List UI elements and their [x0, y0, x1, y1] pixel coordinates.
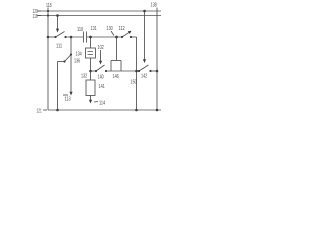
svg-text:130: 130: [107, 26, 113, 32]
relay 146 right leg: [120, 61, 122, 72]
wire middle column between boxes: [90, 58, 92, 80]
wire node A vertical lower to arrow 113: [70, 55, 72, 92]
svg-text:112: 112: [119, 26, 125, 32]
arrowhead switch 112 blade tip: [128, 31, 132, 34]
junction dot ground rail c: [156, 109, 159, 112]
wire 138 vertical right: [156, 8, 158, 111]
svg-text:134: 134: [76, 52, 82, 58]
wire control tap from bus 116: [57, 16, 59, 30]
relay 146 left leg: [110, 61, 112, 72]
wire middle column upper: [90, 37, 92, 48]
svg-text:110: 110: [77, 27, 83, 33]
svg-text:131: 131: [91, 26, 97, 32]
relay 146 stem: [116, 37, 118, 61]
svg-text:113: 113: [65, 97, 71, 103]
svg-text:114: 114: [99, 101, 105, 107]
arrowhead node 113 down: [69, 92, 72, 96]
contact dot switch 111 right: [64, 36, 66, 38]
junction dot 71-row left: [89, 70, 92, 73]
svg-text:141: 141: [99, 84, 105, 90]
capacitor 110 left plate: [83, 32, 85, 43]
svg-text:150: 150: [131, 80, 137, 86]
contact dot switch 140 right: [105, 70, 107, 72]
svg-text:118: 118: [46, 3, 52, 9]
arrowhead leader 102 onto switch 140: [99, 61, 102, 65]
wire main horizontal segment right: [87, 36, 122, 38]
svg-text:132: 132: [81, 74, 87, 80]
capacitor 110 right plate: [86, 32, 88, 43]
wire main horizontal segment left: [48, 36, 56, 38]
contact dot switch 142 right: [149, 70, 151, 72]
junction dot main wire left: [47, 36, 50, 39]
contact dot switch 112 right: [130, 36, 132, 38]
arrowhead control tap onto switch 111: [56, 29, 59, 33]
wire node A vertical upper: [70, 37, 72, 54]
contact dot switch 111 left: [54, 36, 56, 38]
leader dash of label 113: [63, 94, 68, 96]
leader arrow from label 102 to switch 140: [100, 50, 102, 62]
leader dash of label 121: [43, 109, 47, 111]
wire control line from bus 120 to switch 142: [144, 11, 146, 60]
junction dot bus116/tap: [56, 14, 59, 17]
contact dot switch 136 tip node: [70, 53, 72, 55]
svg-text:116: 116: [33, 14, 38, 20]
leader tick of label 130: [111, 31, 114, 36]
switch 112 blade: [122, 32, 131, 38]
bus line 120 (top supply rail): [38, 10, 161, 12]
contact dot switch 136 hinge: [63, 60, 65, 62]
wire 118 vertical: [47, 8, 49, 111]
wire lower branch vertical to ground: [57, 62, 59, 111]
contact dot switch 112 left: [121, 36, 123, 38]
wire main horizontal segment middle: [66, 36, 84, 38]
relay 146 top bar: [111, 60, 121, 62]
junction dot bus120/control: [143, 10, 146, 13]
junction dot ground rail a: [56, 109, 59, 112]
junction dot 71-row far right: [156, 70, 159, 73]
leader dash of label 120: [37, 10, 41, 12]
svg-text:121: 121: [37, 109, 42, 115]
junction dot 118/bus116: [47, 14, 49, 16]
svg-text:111: 111: [56, 44, 62, 50]
svg-text:146: 146: [113, 74, 119, 80]
leader squiggle of label 114: [94, 101, 98, 104]
junction dot 71-row right column: [135, 70, 138, 73]
switch 111 blade: [56, 32, 65, 38]
bus line 116 (second supply rail): [38, 15, 161, 17]
arrowhead control line onto switch 142: [143, 59, 146, 63]
svg-text:136: 136: [74, 59, 80, 65]
junction dot capacitor column: [89, 36, 92, 39]
bottom bus 121 (ground rail): [48, 109, 161, 111]
junction dot 118/bus120: [47, 10, 49, 12]
junction dot relay stem: [115, 36, 118, 39]
arrowhead node 114 down: [89, 100, 92, 104]
wire 71-row segment a: [91, 70, 97, 72]
switch 136 blade: [65, 55, 72, 62]
switch 140 blade: [96, 65, 105, 71]
switch 142 blade: [139, 65, 149, 71]
svg-text:138: 138: [151, 3, 157, 9]
junction dot ground rail b: [135, 109, 138, 112]
wire middle column below resistor to arrow 114: [90, 96, 92, 101]
resistor box 141: [86, 80, 95, 96]
wire 71-row segment b: [106, 70, 139, 72]
leader dash of label 116: [37, 15, 41, 17]
resistor box 102: [86, 48, 96, 58]
wire main horizontal segment far right: [131, 36, 137, 38]
junction dot node A: [70, 36, 73, 39]
svg-text:142: 142: [141, 74, 147, 80]
contact dot switch 140 left: [95, 70, 97, 72]
svg-text:140: 140: [98, 75, 104, 81]
inner marks of box 102: [88, 50, 94, 53]
wire 71-row segment c: [151, 70, 158, 72]
contact dot switch 142 left: [138, 70, 140, 72]
svg-text:102: 102: [98, 45, 104, 51]
wire stub of switch 136: [58, 61, 65, 63]
wire right column from switch 112 down: [136, 37, 138, 110]
